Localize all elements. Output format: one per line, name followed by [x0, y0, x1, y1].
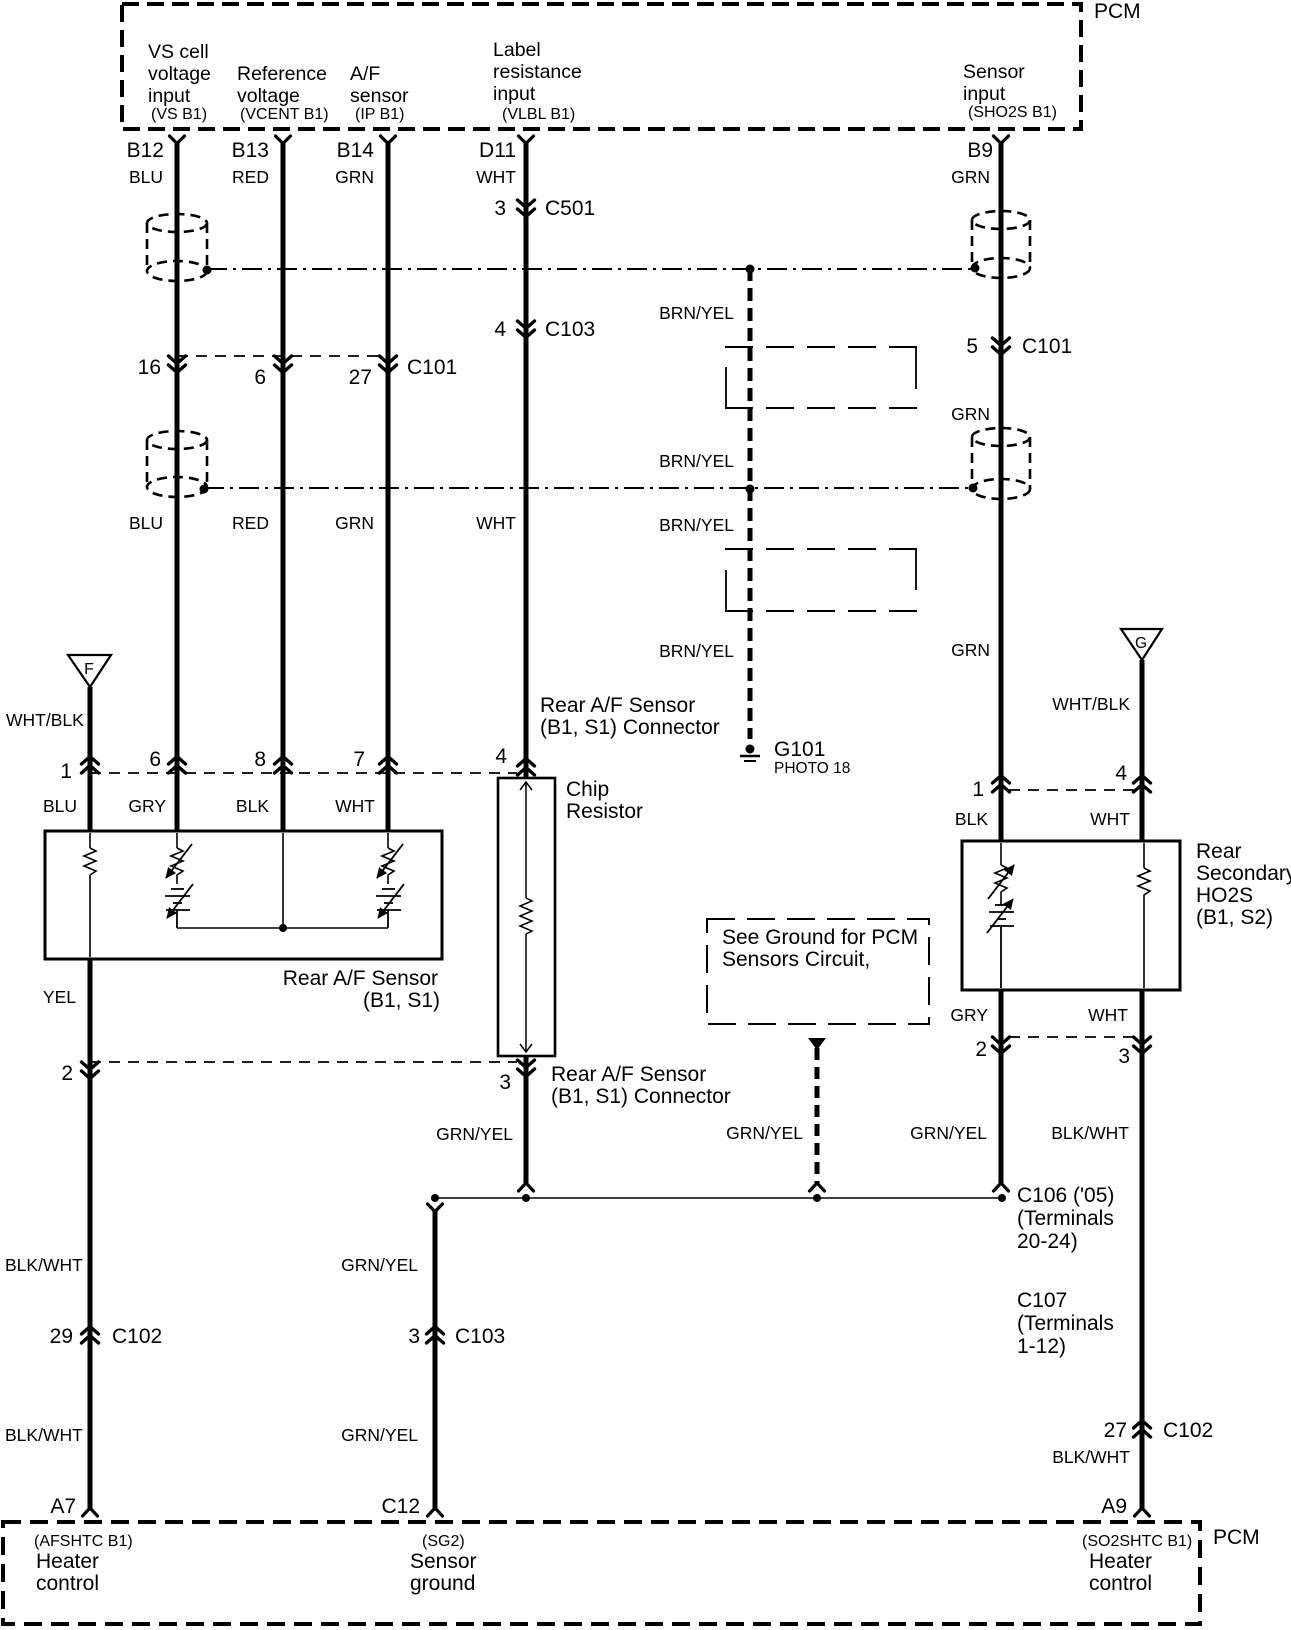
svg-text:(VLBL B1): (VLBL B1) — [502, 106, 575, 123]
svg-text:VS cell: VS cell — [148, 41, 209, 63]
common node wire inside A/F sensor — [177, 927, 388, 929]
svg-text:(B1, S1) Connector: (B1, S1) Connector — [551, 1085, 731, 1108]
pin cap A7 — [83, 1508, 98, 1516]
svg-text:control: control — [1089, 1572, 1152, 1595]
shield drain dot upper right — [971, 264, 980, 273]
wire RED B13 vertical — [281, 142, 286, 831]
svg-text:G: G — [1135, 635, 1147, 652]
variable cell in HO2S left branch — [989, 905, 1014, 988]
connector C101 pin 5 on GRN wire — [993, 338, 1010, 355]
svg-text:C102: C102 — [1163, 1419, 1213, 1442]
svg-text:BLK/WHT: BLK/WHT — [1051, 1123, 1129, 1143]
svg-text:(Terminals: (Terminals — [1017, 1312, 1114, 1335]
C106 splice horizontal line — [435, 1197, 1002, 1199]
svg-text:6: 6 — [149, 748, 161, 771]
wire WHT/BLK from G — [1140, 660, 1145, 841]
variable resistor in HO2S left branch — [995, 843, 1007, 905]
pin D11 — [519, 136, 534, 144]
pin function label Sensor input (SHO2S B1) — [963, 61, 1057, 121]
svg-text:3: 3 — [494, 197, 506, 220]
wire GRN B9 vertical — [999, 142, 1004, 841]
connector C103 pin 3 — [427, 1327, 444, 1344]
junction dot ground C106 — [813, 1194, 821, 1202]
svg-text:Heater: Heater — [36, 1550, 99, 1573]
svg-text:WHT: WHT — [1088, 1005, 1128, 1025]
svg-text:GRY: GRY — [128, 796, 166, 816]
wire GRN/YEL sensor ground — [433, 1211, 438, 1508]
variable resistor in A/F sensor pin7 branch — [382, 833, 394, 884]
svg-text:GRY: GRY — [950, 1005, 988, 1025]
svg-text:(SG2): (SG2) — [422, 1533, 465, 1550]
svg-text:BRN/YEL: BRN/YEL — [659, 641, 734, 661]
connector row E dashed line — [90, 772, 517, 774]
junction dot right C106 — [998, 1194, 1006, 1202]
wire GRN/YEL below chip resistor — [524, 1056, 529, 1184]
connector row E pin 6 — [169, 757, 186, 774]
shield drain dash-dot line lower — [204, 487, 972, 489]
shield symbol on B9 wire upper — [972, 211, 1030, 278]
connector C102 pin 27 — [1134, 1421, 1151, 1438]
svg-text:16: 16 — [138, 356, 161, 379]
svg-text:(B1, S2): (B1, S2) — [1196, 906, 1273, 929]
connector C101 pin 27 chevrons on GRN wire — [380, 356, 397, 373]
svg-text:C103: C103 — [455, 1325, 505, 1348]
label C106 — [1017, 1184, 1114, 1253]
PCM top box — [122, 4, 1081, 129]
svg-text:BLU: BLU — [43, 796, 77, 816]
wire GRN B14 vertical — [386, 142, 391, 831]
svg-text:GRN/YEL: GRN/YEL — [341, 1255, 418, 1275]
svg-text:4: 4 — [1115, 762, 1127, 785]
svg-text:input: input — [493, 83, 536, 105]
svg-text:C501: C501 — [545, 197, 595, 220]
svg-text:WHT/BLK: WHT/BLK — [6, 710, 84, 730]
svg-text:4: 4 — [494, 318, 506, 341]
svg-text:(B1, S1): (B1, S1) — [363, 989, 440, 1012]
variable cell in A/F sensor pin6 branch — [165, 889, 190, 928]
chip resistor internal element — [520, 782, 532, 1052]
svg-text:C101: C101 — [407, 356, 457, 379]
svg-text:PHOTO 18: PHOTO 18 — [774, 760, 850, 777]
svg-text:B12: B12 — [127, 139, 164, 162]
svg-text:C12: C12 — [381, 1495, 420, 1518]
svg-text:2: 2 — [61, 1062, 73, 1085]
svg-text:A9: A9 — [1101, 1495, 1127, 1518]
svg-text:WHT/BLK: WHT/BLK — [1052, 694, 1130, 714]
svg-text:BRN/YEL: BRN/YEL — [659, 303, 734, 323]
svg-text:WHT: WHT — [476, 513, 516, 533]
svg-text:D11: D11 — [479, 139, 516, 162]
resistor in HO2S right branch — [1138, 843, 1150, 988]
svg-text:Sensor: Sensor — [410, 1550, 477, 1573]
svg-text:GRN: GRN — [951, 167, 990, 187]
svg-text:Heater: Heater — [1089, 1550, 1152, 1573]
svg-text:27: 27 — [1104, 1419, 1127, 1442]
pin B13 — [276, 136, 291, 144]
pin function label Label resistance input (VLBL B1) — [493, 39, 582, 123]
pin function label Reference voltage (VCENT B1) — [237, 63, 329, 123]
svg-text:Rear A/F Sensor: Rear A/F Sensor — [540, 694, 695, 717]
wire cap above C106 line ground branch — [810, 1183, 825, 1191]
svg-text:BLU: BLU — [129, 513, 163, 533]
svg-text:A7: A7 — [50, 1495, 76, 1518]
svg-text:WHT: WHT — [476, 167, 516, 187]
svg-text:(B1, S1) Connector: (B1, S1) Connector — [540, 716, 720, 739]
connector row G dashed line — [90, 1061, 517, 1063]
shield drain dot upper left — [203, 266, 212, 275]
svg-text:F: F — [84, 661, 94, 678]
svg-text:27: 27 — [349, 366, 372, 389]
svg-text:B9: B9 — [967, 139, 993, 162]
connector row E pin 1 — [82, 757, 99, 774]
variable cell in A/F sensor pin7 branch — [376, 889, 401, 928]
svg-text:B14: B14 — [337, 139, 375, 162]
svg-text:3: 3 — [408, 1325, 420, 1348]
svg-text:29: 29 — [50, 1325, 73, 1348]
svg-text:voltage: voltage — [237, 85, 300, 107]
svg-text:BRN/YEL: BRN/YEL — [659, 515, 734, 535]
junction dot BRN/YEL top — [746, 265, 755, 274]
wire GRN/YEL below HO2S pin2 — [999, 990, 1004, 1184]
svg-text:C103: C103 — [545, 318, 595, 341]
wire cap above C106 line right branch — [994, 1183, 1009, 1191]
pin function label A/F sensor (IP B1) — [350, 63, 409, 123]
pin cap A9 — [1135, 1508, 1150, 1516]
connector row E pin 8 — [275, 757, 292, 774]
svg-text:BLK/WHT: BLK/WHT — [5, 1425, 83, 1445]
Rear A/F Sensor box — [45, 831, 442, 959]
svg-text:1: 1 — [972, 778, 984, 801]
svg-text:ground: ground — [410, 1572, 475, 1595]
connector F triangle — [68, 655, 111, 687]
svg-text:1-12): 1-12) — [1017, 1335, 1066, 1358]
svg-text:WHT: WHT — [1090, 809, 1130, 829]
connector row H dashed line — [1009, 1036, 1136, 1038]
connector block dashed rectangle upper — [725, 347, 917, 408]
svg-text:20-24): 20-24) — [1017, 1230, 1078, 1253]
svg-text:PCM: PCM — [1094, 0, 1141, 23]
connector C101 pin 6 chevrons on RED wire — [275, 356, 292, 373]
PCM bottom box — [3, 1522, 1200, 1624]
svg-text:A/F: A/F — [350, 63, 380, 85]
connector row H pin 3 — [1134, 1037, 1151, 1054]
connector row F dashed line — [1009, 789, 1134, 791]
connector block dashed rectangle lower — [725, 549, 917, 611]
connector row F pin 4 — [1134, 776, 1151, 793]
svg-text:BLK: BLK — [236, 796, 269, 816]
svg-text:WHT: WHT — [335, 796, 375, 816]
shield drain dash-dot line upper — [207, 268, 972, 270]
ground reference arrow below See Ground box — [808, 1038, 826, 1050]
wire BLU B12 vertical — [175, 142, 180, 831]
label Rear Secondary HO2S (B1, S2) — [1196, 840, 1291, 929]
svg-text:Sensors Circuit,: Sensors Circuit, — [722, 948, 870, 971]
shield symbol on B9 wire lower — [972, 428, 1030, 499]
wire BRN/YEL shield drain vertical dashed — [748, 268, 753, 739]
svg-text:C102: C102 — [112, 1325, 162, 1348]
svg-text:(IP B1): (IP B1) — [355, 106, 405, 123]
pin B14 — [381, 136, 396, 144]
Rear Secondary HO2S box — [962, 841, 1180, 990]
svg-text:3: 3 — [499, 1071, 511, 1094]
svg-text:GRN: GRN — [335, 513, 374, 533]
connector C501 pin 3 on WHT wire — [518, 200, 535, 217]
svg-text:input: input — [148, 85, 191, 107]
wire dashed ground reference — [815, 1048, 820, 1184]
svg-text:HO2S: HO2S — [1196, 884, 1253, 907]
shield drain dot lower right — [969, 484, 978, 493]
svg-text:2: 2 — [975, 1038, 987, 1061]
svg-text:5: 5 — [966, 335, 978, 358]
svg-text:Secondary: Secondary — [1196, 862, 1291, 885]
svg-text:sensor: sensor — [350, 85, 409, 107]
resistor in A/F sensor pin1 branch — [84, 833, 96, 957]
svg-text:(AFSHTC B1): (AFSHTC B1) — [34, 1533, 133, 1550]
connector row E pin 7 — [380, 757, 397, 774]
connector C101 pin 16 chevrons on BLU wire — [169, 356, 186, 373]
wire cap above C106 line chip branch — [519, 1183, 534, 1191]
connector C103 pin 4 on WHT wire — [518, 321, 535, 338]
svg-text:(SO2SHTC B1): (SO2SHTC B1) — [1082, 1533, 1192, 1550]
wire WHT D11 vertical — [524, 142, 529, 778]
chip resistor box — [498, 778, 555, 1056]
svg-text:BLU: BLU — [129, 167, 163, 187]
junction dot left C106 — [431, 1194, 439, 1202]
svg-text:Sensor: Sensor — [963, 61, 1025, 83]
svg-text:(VS B1): (VS B1) — [151, 106, 207, 123]
svg-text:GRN/YEL: GRN/YEL — [436, 1124, 513, 1144]
pin B9 — [994, 136, 1009, 144]
svg-text:C107: C107 — [1017, 1289, 1067, 1312]
svg-text:GRN: GRN — [951, 404, 990, 424]
pin cap C12 — [428, 1508, 443, 1516]
svg-text:RED: RED — [232, 513, 269, 533]
connector row F pin 1 — [993, 776, 1010, 793]
svg-text:BLK/WHT: BLK/WHT — [1052, 1447, 1130, 1467]
svg-text:Rear: Rear — [1196, 840, 1242, 863]
pin function label VS cell voltage input (VS B1) — [148, 41, 211, 123]
wire cap below C106 line left branch — [428, 1204, 443, 1212]
shield symbol on B12 wire lower — [147, 431, 207, 497]
svg-text:BRN/YEL: BRN/YEL — [659, 451, 734, 471]
wire BLK/WHT below HO2S pin3 — [1140, 990, 1145, 1508]
svg-text:C101: C101 — [1022, 335, 1072, 358]
label C107 — [1017, 1289, 1114, 1358]
svg-text:4: 4 — [495, 745, 507, 768]
svg-text:G101: G101 — [774, 738, 825, 761]
svg-text:Rear A/F Sensor: Rear A/F Sensor — [283, 967, 438, 990]
svg-text:Rear A/F Sensor: Rear A/F Sensor — [551, 1063, 706, 1086]
svg-text:PCM: PCM — [1213, 1526, 1260, 1549]
ground G101 — [740, 745, 760, 762]
svg-text:(SHO2S B1): (SHO2S B1) — [968, 104, 1057, 121]
wire WHT/BLK from F — [88, 687, 93, 831]
pin B12 — [170, 136, 185, 144]
svg-text:6: 6 — [254, 366, 266, 389]
connector row H pin 2 — [993, 1037, 1010, 1054]
svg-text:input: input — [963, 83, 1006, 105]
svg-text:Resistor: Resistor — [566, 800, 643, 823]
shield symbol on B12 wire upper — [147, 214, 207, 281]
wire YEL below A/F sensor — [88, 959, 93, 1508]
connector G triangle — [1121, 629, 1162, 660]
svg-text:B13: B13 — [232, 139, 269, 162]
svg-text:Label: Label — [493, 39, 541, 61]
connector C102 pin 29 — [82, 1327, 99, 1344]
svg-text:(VCENT B1): (VCENT B1) — [240, 106, 329, 123]
svg-text:3: 3 — [1118, 1045, 1130, 1068]
svg-text:GRN/YEL: GRN/YEL — [910, 1123, 987, 1143]
svg-text:(Terminals: (Terminals — [1017, 1207, 1114, 1230]
shield drain dot lower left — [200, 485, 209, 494]
svg-text:See Ground for PCM: See Ground for PCM — [722, 926, 918, 949]
connector pin 3 below chip resistor — [518, 1060, 535, 1077]
junction dot chip C106 — [522, 1194, 530, 1202]
svg-text:control: control — [36, 1572, 99, 1595]
junction dot BRN/YEL mid — [746, 485, 755, 494]
svg-text:BLK: BLK — [955, 809, 988, 829]
svg-text:7: 7 — [353, 748, 365, 771]
svg-text:Reference: Reference — [237, 63, 327, 85]
connector C101 row dashed line — [177, 355, 388, 357]
svg-text:C106 ('05): C106 ('05) — [1017, 1184, 1114, 1207]
variable resistor in A/F sensor pin6 branch — [171, 833, 183, 884]
svg-text:Chip: Chip — [566, 778, 609, 801]
svg-text:GRN/YEL: GRN/YEL — [726, 1123, 803, 1143]
wire BLK pin8 branch in A/F sensor — [282, 833, 284, 928]
svg-text:YEL: YEL — [43, 987, 76, 1007]
svg-text:voltage: voltage — [148, 63, 211, 85]
svg-text:GRN: GRN — [951, 640, 990, 660]
svg-text:8: 8 — [254, 748, 266, 771]
junction dot common node — [279, 924, 287, 932]
svg-text:RED: RED — [232, 167, 269, 187]
svg-text:GRN/YEL: GRN/YEL — [341, 1425, 418, 1445]
svg-text:1: 1 — [60, 760, 72, 783]
connector row E pin 4 chip resistor — [518, 759, 535, 776]
svg-text:BLK/WHT: BLK/WHT — [5, 1255, 83, 1275]
See Ground dashed note box — [707, 919, 929, 1024]
connector row G pin 2 — [82, 1062, 99, 1079]
svg-text:GRN: GRN — [335, 167, 374, 187]
svg-text:resistance: resistance — [493, 61, 582, 83]
